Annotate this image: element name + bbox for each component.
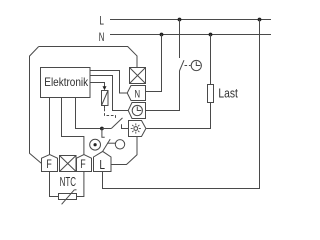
junction on L bus at x=179.5	[178, 18, 182, 22]
terminal F2 pentagon	[77, 155, 92, 172]
svg-text:F: F	[46, 159, 51, 171]
switch S1 upper contact	[102, 128, 111, 130]
mechanical link from actuator to switch	[104, 106, 106, 109]
svg-text:L: L	[99, 158, 105, 172]
switch S3 lower contact	[102, 129, 105, 138]
wire terminal F1 to NTC	[50, 172, 59, 197]
svg-text:N: N	[99, 30, 105, 44]
sun symbol	[134, 127, 138, 131]
terminal X crossed box	[60, 156, 77, 172]
wire L bus to terminal L (bottom)	[103, 20, 260, 189]
junction node switch	[100, 127, 104, 131]
wire Elektronik to switch node	[76, 98, 102, 129]
svg-text:F: F	[80, 159, 85, 171]
wire Elektronik to terminal F1	[49, 98, 51, 155]
device outline left	[30, 47, 42, 164]
actuator drive	[102, 91, 109, 106]
wire L bus	[110, 19, 271, 21]
terminal N pentagon	[127, 86, 145, 101]
switch S2 timer contact lever	[179, 60, 184, 71]
wire N bus to load	[210, 35, 212, 85]
wire load to dimmer output	[146, 103, 210, 129]
svg-text:L: L	[99, 14, 104, 28]
wire terminal F2 to NTC	[77, 172, 84, 197]
wire Elektronik to terminal F2	[62, 98, 84, 155]
terminal clock pentagon	[128, 103, 145, 119]
resistor Last	[208, 85, 214, 103]
wire timer switch to clock terminal	[146, 71, 180, 111]
box Elektronik	[41, 68, 91, 98]
wire L bus to timer switch	[179, 20, 181, 59]
wire Elektronik to N terminal	[90, 71, 127, 94]
device outline top	[39, 47, 137, 68]
junction on N bus at x=210.5	[209, 33, 213, 37]
mechanical link to knob	[107, 142, 115, 144]
wire Elektronik to clock terminal	[90, 76, 128, 111]
push button symbol	[90, 139, 101, 150]
wire N bus	[110, 34, 271, 36]
svg-text:Last: Last	[218, 85, 238, 100]
device outline bottom right	[111, 137, 137, 165]
svg-text:NTC: NTC	[60, 174, 76, 189]
terminal L pentagon	[94, 151, 112, 171]
mechanical link dashes to clock	[185, 65, 191, 67]
terminal sun pentagon (dimmer output)	[129, 121, 146, 137]
wire Elektronik control arrow to actuator	[90, 83, 105, 87]
junction on N bus at x=161.5	[160, 33, 164, 37]
knob circle	[115, 140, 124, 149]
lamp X1 crossed box	[130, 68, 146, 84]
thermistor NTC	[59, 194, 77, 200]
terminal F1 pentagon	[42, 155, 58, 172]
svg-text:Elektronik: Elektronik	[44, 75, 89, 89]
svg-text:N: N	[135, 88, 141, 100]
wire N bus to N terminal	[146, 35, 162, 92]
clock symbol for timer switch	[191, 60, 201, 70]
junction on L bus at x=259.5	[258, 18, 262, 22]
